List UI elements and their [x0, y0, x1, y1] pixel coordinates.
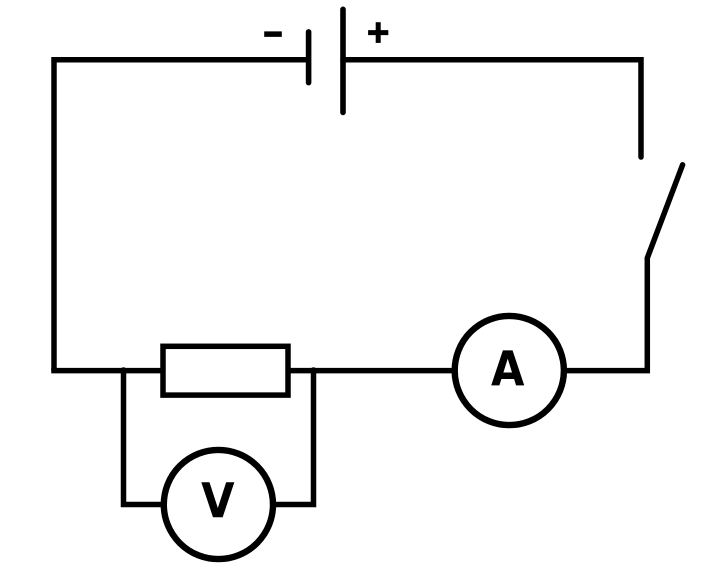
wire top-left from battery negative to left side	[54, 60, 306, 371]
voltmeter V1 circle	[164, 450, 273, 559]
junction dot at right voltmeter tap	[310, 367, 317, 374]
wire from switch down to ammeter	[564, 258, 647, 371]
voltmeter label V	[201, 482, 234, 517]
wire top-right from battery positive to switch	[343, 60, 641, 157]
ammeter A1 circle	[455, 316, 564, 425]
wire from resistor to ammeter	[289, 368, 455, 374]
ammeter label A	[491, 350, 524, 385]
switch S1 blade	[647, 165, 682, 258]
battery B1 negative plate	[306, 32, 312, 83]
battery positive label +	[368, 22, 388, 43]
wire bottom-left from left side to resistor	[51, 368, 162, 374]
resistor R1	[163, 346, 288, 395]
voltmeter right branch wire	[274, 371, 314, 505]
junction dot at left voltmeter tap	[120, 367, 127, 374]
battery negative label -	[264, 31, 282, 37]
battery B1 positive plate	[340, 9, 346, 112]
voltmeter left branch wire	[124, 371, 164, 505]
